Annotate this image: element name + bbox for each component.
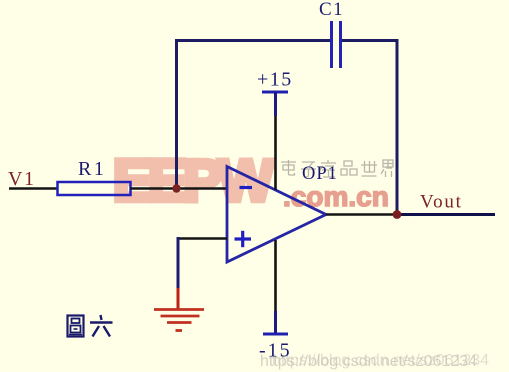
- op-amp minus sign: [240, 186, 253, 189]
- wire output: [326, 213, 397, 216]
- svg-text:V1: V1: [8, 168, 35, 190]
- op-amp U1 triangle: [227, 167, 326, 263]
- wire feedback top right: [341, 39, 399, 42]
- char 電: [281, 160, 296, 175]
- char 圖: [68, 316, 84, 337]
- svg-text:.com.cn: .com.cn: [283, 181, 389, 212]
- label 圖六 (figure six) drawn paths: [68, 315, 113, 337]
- watermark CJK 電子產品世界 (gray): [281, 160, 393, 177]
- wire +15 stub: [274, 92, 277, 116]
- wire feedback left vertical: [175, 41, 178, 189]
- node junction input: [172, 184, 180, 192]
- svg-text:C1: C1: [319, 0, 344, 20]
- wire output right: [397, 213, 495, 216]
- wire feedback top left: [175, 39, 331, 42]
- wire V1 input: [9, 187, 57, 190]
- wire to ground vertical: [177, 237, 180, 288]
- svg-text:Vout: Vout: [420, 192, 463, 213]
- char 子: [301, 162, 316, 177]
- resistor R1: [58, 182, 131, 195]
- char 六: [90, 315, 113, 337]
- wire +15 to op-amp: [274, 116, 277, 190]
- char 產: [320, 160, 336, 177]
- wire -15 stub: [274, 311, 277, 334]
- svg-text:-15: -15: [259, 340, 292, 362]
- char 界: [381, 160, 393, 177]
- wire -15 from op-amp: [274, 240, 277, 311]
- wire resistor to inverting input: [131, 187, 228, 190]
- svg-text:OP1: OP1: [302, 164, 338, 184]
- -15 bar: [263, 333, 288, 336]
- ground: [154, 310, 204, 331]
- svg-text:https://blog.csdn.net/sz061234: https://blog.csdn.net/sz061234: [272, 352, 489, 369]
- char 世: [361, 161, 377, 176]
- +15 bar: [262, 91, 288, 94]
- svg-text:EEPW: EEPW: [113, 149, 274, 214]
- svg-text:R1: R1: [78, 158, 106, 180]
- wire feedback right vertical: [396, 39, 399, 215]
- node junction output: [393, 210, 402, 219]
- wire noninverting input: [178, 237, 227, 240]
- svg-text:+15: +15: [257, 69, 293, 91]
- capacitor C1: [332, 21, 341, 68]
- char 品: [341, 161, 357, 175]
- op-amp plus sign: [235, 231, 252, 247]
- wire to ground red segment: [177, 288, 180, 309]
